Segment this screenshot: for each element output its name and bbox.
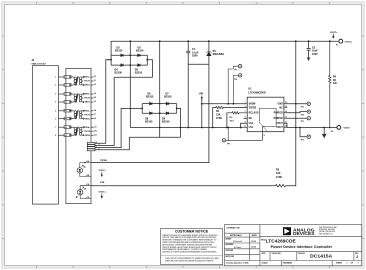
test point TP1: [228, 65, 242, 104]
svg-text:SHDN: SHDN: [249, 103, 256, 106]
svg-text:TP5: TP5: [301, 107, 304, 109]
svg-text:T2PSE: T2PSE: [249, 106, 257, 109]
svg-text:2: 2: [55, 85, 56, 87]
customer notice box: [161, 229, 223, 265]
node bus dots: [187, 103, 241, 128]
svg-text:TP3: TP3: [301, 121, 304, 123]
test point TP5: [307, 102, 310, 105]
svg-text:SIZE: SIZE: [262, 253, 265, 255]
svg-text:TRCT1: TRCT1: [84, 81, 90, 83]
bridge 1 outline: [111, 55, 147, 65]
svg-text:B2100: B2100: [115, 72, 123, 75]
wire T2PSE: [91, 64, 209, 162]
svg-text:VOUT+: VOUT+: [99, 191, 107, 193]
diode D1 TVS: [206, 41, 211, 64]
svg-text:DWG NO.: DWG NO.: [298, 253, 305, 255]
terminal E1 VOUT+: [339, 39, 343, 43]
svg-text:B2100: B2100: [146, 95, 154, 98]
svg-text:VOUT+: VOUT+: [99, 170, 107, 172]
svg-text:J7: J7: [94, 114, 96, 116]
svg-text:TRCT2: TRCT2: [84, 98, 90, 100]
wire bridge1 mid vertical: [129, 41, 131, 127]
svg-text:UVL: UVL: [249, 122, 254, 125]
svg-text:1: 1: [358, 263, 359, 265]
svg-text:100V: 100V: [312, 53, 318, 56]
wire U1 UVLO pins: [241, 123, 248, 127]
svg-text:VOUT+: VOUT+: [345, 41, 353, 43]
wire U1 NC right stub: [284, 106, 288, 108]
capacitor C1: [186, 41, 190, 64]
svg-text:B2100: B2100: [135, 72, 143, 75]
svg-text:2: 2: [245, 106, 246, 108]
resistor R3: [227, 112, 247, 114]
ADI address lines: [319, 226, 337, 236]
resistor R2: [275, 184, 285, 187]
size row labels: [262, 252, 360, 255]
diode D5: [138, 64, 140, 67]
svg-text:DATE: DATE: [252, 234, 258, 237]
svg-text:J8: J8: [94, 110, 96, 112]
wire spare pair 4: [95, 137, 181, 150]
wire bridge1 left input stub: [106, 59, 111, 61]
wire SHDN line: [202, 103, 247, 105]
svg-text:TRD2+: TRD2+: [84, 94, 91, 96]
svg-text:NC: NC: [279, 106, 283, 109]
wire R1 left leg: [212, 108, 214, 128]
diode D9: [166, 112, 168, 115]
transformer T2 (in J1): [64, 93, 85, 104]
svg-text:TP6: TP6: [301, 140, 304, 142]
wire bottom bus: [130, 127, 240, 129]
node top rail dots: [187, 40, 330, 42]
connector J1 jack body: [32, 66, 58, 204]
diode D2: [121, 54, 123, 57]
wire bridge1 output L-link: [114, 60, 152, 78]
U1 pad pin 17 wire: [262, 126, 264, 140]
svg-text:M.Gorbold: M.Gorbold: [233, 241, 243, 243]
wire bridge2 mid vertical: [159, 41, 161, 137]
svg-text:DEVICES: DEVICES: [293, 231, 315, 236]
transformer T4 (in J1): [64, 126, 85, 137]
transformer T3 (in J1): [64, 109, 85, 119]
U1 pin labels left: [249, 103, 259, 129]
wire PSE / R2 line: [91, 104, 296, 186]
svg-text:1: 1: [245, 102, 246, 104]
svg-text:PWRGD: PWRGD: [274, 117, 283, 120]
wire R3 left leg: [226, 113, 228, 128]
svg-text:TRD3-: TRD3-: [85, 118, 91, 120]
svg-text:5: 5: [55, 118, 56, 120]
title block frame: [225, 225, 362, 266]
svg-text:Tuesday, September 9, 2008: Tuesday, September 9, 2008: [226, 262, 248, 265]
wire C1 down to bus: [187, 64, 189, 127]
svg-text:TP2: TP2: [234, 79, 237, 81]
svg-text:2: 2: [356, 255, 358, 259]
svg-text:VOUT+: VOUT+: [330, 32, 338, 34]
svg-text:TRD3+: TRD3+: [84, 111, 91, 113]
test point TP2: [233, 74, 242, 104]
svg-text:VIN: VIN: [199, 93, 203, 96]
svg-text:TRCT4: TRCT4: [84, 130, 91, 133]
svg-text:J12: J12: [94, 134, 97, 136]
diode D4: [121, 64, 123, 67]
svg-text:T2PSE: T2PSE: [100, 160, 107, 162]
test point TP3: [307, 117, 310, 120]
svg-text:SUPPLIED FOR USE WITH LINEAR T: SUPPLIED FOR USE WITH LINEAR TECHNOLOGY …: [165, 259, 214, 262]
svg-text:J1: J1: [94, 80, 96, 82]
svg-text:B2100: B2100: [162, 120, 170, 123]
svg-text:B2100: B2100: [164, 95, 172, 98]
svg-text:APPROVALS: APPROVALS: [230, 234, 242, 237]
svg-text:SMAJ58A: SMAJ58A: [213, 53, 225, 56]
wire U1 NC stub: [244, 117, 248, 119]
svg-text:1/4W: 1/4W: [216, 117, 222, 120]
diode D7: [166, 102, 168, 105]
svg-text:J9: J9: [94, 118, 96, 120]
svg-text:3-21-08: 3-21-08: [251, 241, 256, 243]
wire C1-D1 bottom link: [188, 63, 209, 65]
resistor R1: [213, 106, 248, 108]
svg-text:1: 1: [55, 77, 56, 79]
svg-text:3-21-08: 3-21-08: [251, 247, 256, 249]
svg-text:PWRGD: PWRGD: [274, 112, 283, 115]
svg-text:7: 7: [55, 127, 56, 129]
wire spare pair 2: [95, 77, 114, 145]
svg-text:FILENAME: FILENAME: [283, 262, 293, 265]
svg-text:LTC4269CDKD: LTC4269CDKD: [248, 92, 266, 95]
svg-text:TP7: TP7: [227, 143, 230, 145]
U1 pin labels right: [274, 103, 284, 129]
svg-text:RCLASS: RCLASS: [249, 112, 259, 115]
svg-text:VOUT: VOUT: [276, 122, 283, 125]
svg-text:E1: E1: [336, 45, 338, 47]
node VOUT- rail dots: [295, 127, 331, 129]
resistor R4: [329, 41, 331, 127]
svg-text:VOUT: VOUT: [276, 126, 283, 129]
svg-text:UVL: UVL: [249, 126, 254, 129]
capacitor C2: [307, 41, 311, 61]
svg-text:TRD4+: TRD4+: [84, 126, 91, 129]
svg-text:TP1: TP1: [234, 70, 237, 72]
svg-text:3: 3: [245, 111, 246, 113]
test point TP7: [222, 128, 262, 143]
svg-text:B2100: B2100: [115, 49, 123, 52]
ground arrow on VOUT- rail: [323, 128, 325, 135]
U1 pin numbers: [245, 102, 287, 127]
svg-text:SCALE: SCALE: [262, 262, 269, 265]
svg-text:8: 8: [55, 135, 56, 137]
svg-text:E2: E2: [331, 131, 333, 133]
svg-text:THIS CIRCUIT IS PROPRIETARY TO: THIS CIRCUIT IS PROPRIETARY TO LINEAR TE…: [165, 257, 219, 260]
bridge 2 outline: [142, 104, 177, 114]
transformer T1 (in J1): [64, 76, 85, 87]
wire PWRGD to TP4: [284, 112, 307, 113]
svg-text:TRD1+: TRD1+: [84, 77, 91, 79]
svg-text:B2100: B2100: [145, 120, 153, 123]
svg-text:J4: J4: [94, 96, 96, 99]
svg-text:TRD2-: TRD2-: [85, 102, 91, 104]
svg-text:100V: 100V: [192, 55, 198, 58]
svg-text:J6: J6: [94, 101, 96, 103]
svg-text:VOUT-: VOUT-: [344, 128, 351, 130]
svg-text:TRD4-: TRD4-: [85, 134, 91, 137]
node bridge2 dots: [141, 40, 181, 128]
svg-text:4: 4: [55, 110, 56, 113]
svg-text:GND: GND: [277, 103, 283, 106]
wire spare pair 1: [95, 60, 111, 144]
svg-text:PSE: PSE: [100, 182, 105, 184]
svg-text:J11: J11: [94, 126, 97, 128]
wire top rail VOUT+: [111, 41, 338, 55]
wire U1 GND to TP5: [284, 41, 307, 104]
svg-text:3: 3: [55, 94, 56, 96]
test point TP4: [307, 110, 310, 113]
wire bridge2 right output: [177, 108, 181, 137]
svg-text:0826-1X1T-AT: 0826-1X1T-AT: [32, 62, 47, 65]
svg-text:B2100: B2100: [136, 49, 144, 52]
svg-text:TRD1-: TRD1-: [85, 85, 91, 87]
svg-text:17: 17: [264, 135, 266, 137]
svg-text:TP4: TP4: [301, 113, 304, 116]
wire VIN vertical: [201, 99, 203, 128]
svg-text:1/4W: 1/4W: [276, 176, 282, 179]
svg-text:CUSTOMER NOTICE: CUSTOMER NOTICE: [175, 230, 209, 234]
svg-text:SHEET: SHEET: [336, 263, 343, 265]
svg-text:1W: 1W: [333, 82, 337, 85]
LED LED1 (in J1): [77, 162, 91, 177]
diode D8: [150, 112, 152, 115]
svg-text:DC1415A: DC1415A: [310, 254, 332, 259]
wire VOUT pins to rail: [284, 123, 287, 127]
svg-text:CONTRACT NO.: CONTRACT NO.: [227, 226, 241, 229]
spare-pair terminal block (in J1): [87, 142, 95, 150]
svg-text:ENGINEER: ENGINEER: [226, 244, 235, 246]
wire VOUT- rail: [287, 127, 336, 129]
ADI logo: [283, 227, 291, 235]
svg-text:TRCT3: TRCT3: [84, 115, 90, 117]
wire PWRGDb to TP3: [284, 117, 307, 119]
LED LED2 (in J1): [76, 186, 91, 199]
svg-text:LTC4269CDE: LTC4269CDE: [266, 238, 296, 243]
svg-text:B.Clarke: B.Clarke: [234, 247, 241, 249]
svg-text:1: 1: [347, 263, 348, 265]
svg-text:J10: J10: [94, 130, 97, 132]
svg-text:NC: NC: [249, 117, 253, 120]
connector J1 magnetics box: [58, 68, 91, 203]
svg-text:J2: J2: [94, 76, 96, 78]
terminal E2 VOUT-: [337, 126, 341, 130]
diode D3: [138, 54, 140, 57]
svg-text:CHECKED: CHECKED: [226, 250, 234, 252]
node bridge1 dots: [110, 40, 148, 66]
svg-text:J5: J5: [94, 93, 96, 95]
svg-text:6: 6: [55, 102, 56, 104]
diode D6: [150, 102, 152, 105]
svg-text:J3: J3: [94, 84, 96, 86]
svg-text:12K: 12K: [276, 172, 281, 175]
test point TP6: [300, 128, 307, 137]
svg-text:TECHNOLOGY APPLICATIONS ENGINE: TECHNOLOGY APPLICATIONS ENGINEERING FOR …: [162, 251, 217, 254]
svg-text:Power Device Interface Control: Power Device Interface Controller: [271, 245, 333, 249]
bottom row labels: [262, 262, 359, 265]
wire spare pair 3: [95, 108, 142, 147]
